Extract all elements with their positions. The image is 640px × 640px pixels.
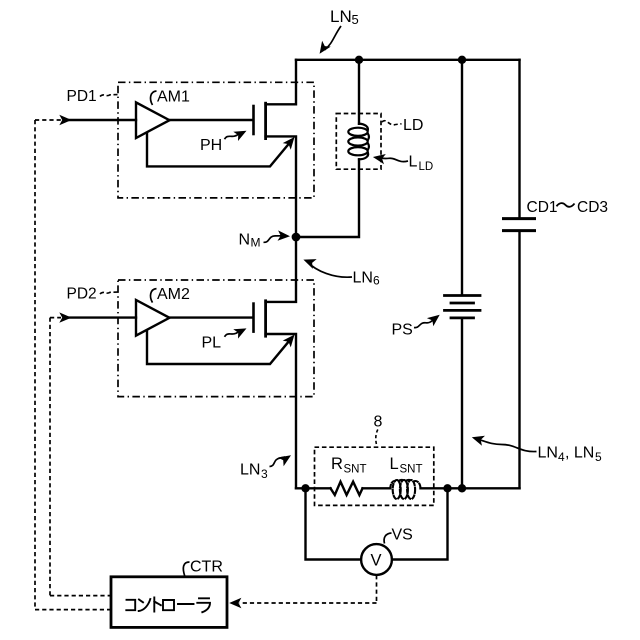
leader VS (384, 533, 391, 544)
leader LN3 with arrow (270, 457, 286, 467)
svg-text:CD1: CD1 (527, 199, 558, 216)
battery PS plates (445, 296, 481, 318)
svg-text:LN: LN (240, 462, 260, 479)
arrowhead VS to controller (229, 598, 241, 608)
inductor L_SNT (dashed) (390, 480, 420, 499)
svg-text:3: 3 (261, 467, 268, 481)
wire V-sensor loop right (392, 488, 448, 559)
svg-text:LD: LD (403, 117, 423, 134)
dash-dot enclosure AM1/PH (118, 82, 314, 198)
leader PL with arrow (225, 332, 239, 337)
arrowhead PD1 input (59, 115, 71, 125)
dashed control line PD1 from controller (35, 120, 111, 610)
dashed stub into PD1 arrow (35, 119, 61, 121)
resistor R_SNT (331, 482, 363, 495)
svg-text:SNT: SNT (344, 464, 367, 476)
wire V-sensor loop left (306, 488, 362, 559)
svg-text:LN: LN (353, 270, 373, 287)
svg-text:PH: PH (200, 137, 222, 154)
wire AM2 output to PL gate (170, 316, 253, 318)
leader PD1 (dashed tilde to box) (100, 95, 118, 97)
wire AM1 output to PH gate (170, 119, 253, 121)
op-amp AM2 (136, 300, 170, 336)
wire battery branch upper (461, 60, 463, 294)
svg-text:6: 6 (373, 274, 380, 288)
svg-text:AM2: AM2 (157, 286, 190, 303)
wire AM2 feedback (147, 331, 291, 364)
svg-text:PD1: PD1 (67, 88, 97, 105)
junction dots (292, 56, 467, 493)
svg-text:CD3: CD3 (577, 199, 608, 216)
svg-text:8: 8 (374, 414, 383, 431)
svg-text:VS: VS (392, 527, 413, 544)
dashed enclosure 8 (R_SNT/L_SNT) (315, 447, 434, 505)
svg-text:PS: PS (392, 322, 413, 339)
voltmeter VS circle (361, 544, 392, 575)
leader LD (dashed) (382, 121, 402, 125)
svg-text:SNT: SNT (400, 464, 423, 476)
leader LN5 with arrow (325, 26, 342, 50)
svg-text:LN: LN (538, 445, 558, 462)
svg-text:PL: PL (202, 335, 222, 352)
node: LD tap on LN5 (355, 56, 363, 64)
wire node NM to PL drain (266, 237, 296, 302)
svg-text:L: L (409, 154, 418, 171)
node: V loop left on LN3 (301, 484, 309, 492)
svg-text:AM1: AM1 (157, 89, 190, 106)
leader PS with arrow (414, 317, 436, 327)
wire AM2 input (69, 316, 136, 318)
controller CTR box (111, 577, 227, 628)
transistor PH channel bar (264, 103, 267, 138)
dashed enclosure LD (336, 114, 381, 170)
wire LD branch upper (358, 60, 360, 124)
svg-text:LN: LN (330, 7, 352, 26)
wire right branch upper (to CD1~CD3) (518, 60, 520, 217)
wire AM1 feedback (147, 134, 291, 167)
leader L_LD with arrow (378, 158, 409, 162)
wire PH source to node NM (LN6) (266, 136, 296, 237)
svg-text:M: M (251, 236, 261, 250)
leader PD2 (dashed tilde to box) (100, 292, 118, 294)
inductor L_LD coil (348, 124, 369, 160)
wire AM1 input (69, 119, 136, 121)
transistor PH source arrow (283, 134, 299, 150)
transistor PL source arrow (283, 331, 299, 347)
svg-text:4: 4 (558, 450, 565, 464)
leader LN4,LN5 with arrow (477, 439, 537, 452)
transistor PH gate bar (252, 106, 255, 134)
leader AM2 (151, 289, 157, 303)
capacitor CD1~CD3 (504, 219, 535, 231)
dashed control line PD2 from controller (50, 318, 111, 596)
svg-text:N: N (239, 232, 251, 249)
node NM (292, 233, 301, 242)
dash-dot enclosure AM2/PL (118, 280, 314, 397)
svg-text:V: V (371, 552, 382, 570)
wire LN5 top rail (296, 59, 520, 61)
wire between R_SNT and L_SNT (363, 487, 391, 489)
leader NM with arrow (264, 236, 284, 243)
wire PH drain (266, 60, 296, 105)
svg-text:LD: LD (419, 161, 434, 173)
svg-text:R: R (331, 455, 343, 473)
svg-text:CTR: CTR (190, 559, 223, 576)
label コントローラ (katakana strokes) (126, 598, 210, 613)
node: V loop right (443, 484, 451, 492)
node: battery tap on LN5 (458, 56, 466, 64)
op-amp AM1 (136, 102, 170, 138)
node: battery on bottom rail (458, 484, 466, 492)
transistor PL gate bar (252, 304, 255, 332)
leader AM1 (151, 91, 157, 105)
arrowhead PD2 input (59, 312, 71, 322)
svg-text:PD2: PD2 (67, 286, 97, 303)
wire battery branch lower (461, 319, 463, 488)
transistor PL channel bar (264, 301, 267, 336)
wire bottom rail right (421, 487, 520, 489)
svg-text:5: 5 (352, 12, 359, 27)
wire PL source down (LN3) (266, 334, 296, 488)
leader CTR (183, 562, 189, 576)
wire LD branch lower to node NM (296, 159, 359, 237)
svg-text:L: L (390, 455, 399, 473)
svg-text:, LN: , LN (565, 445, 594, 462)
leader 8 (dashed) (376, 430, 378, 447)
wire bottom rail left (296, 487, 331, 489)
leader LN6 with arrow (308, 262, 353, 277)
svg-text:5: 5 (595, 450, 602, 464)
dashed stub into PD2 arrow (50, 317, 61, 319)
leader PH with arrow (225, 134, 239, 139)
dashed sense line VS to controller (240, 575, 377, 603)
wire right branch lower (518, 232, 520, 488)
